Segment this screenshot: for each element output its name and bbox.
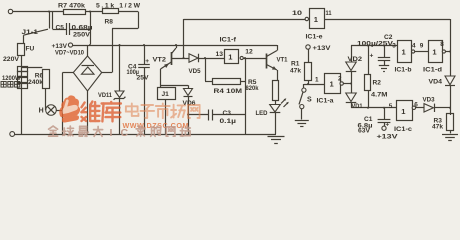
svg-text:5: 5 — [389, 103, 393, 110]
svg-text:820k: 820k — [246, 85, 259, 92]
svg-text:47k: 47k — [432, 123, 443, 130]
svg-text:IC1-f: IC1-f — [220, 37, 237, 44]
svg-text:6: 6 — [414, 101, 418, 108]
svg-text:+13V: +13V — [377, 133, 399, 140]
svg-text:VD2: VD2 — [348, 56, 363, 63]
svg-text:13: 13 — [216, 51, 224, 58]
svg-text:IC1-b: IC1-b — [395, 66, 412, 73]
svg-text:J1-1: J1-1 — [22, 29, 39, 36]
svg-text:8: 8 — [440, 41, 444, 48]
svg-text:FU: FU — [26, 46, 35, 53]
svg-text:0.1µ: 0.1µ — [220, 118, 237, 125]
svg-text:240k: 240k — [28, 79, 43, 86]
svg-text:12: 12 — [245, 49, 253, 56]
svg-text:220V: 220V — [3, 56, 20, 63]
svg-text:VD5: VD5 — [189, 68, 201, 75]
svg-text:+13V: +13V — [313, 45, 332, 52]
svg-text:VT1: VT1 — [277, 57, 288, 64]
svg-text:IC1-a: IC1-a — [317, 98, 334, 105]
svg-text:9: 9 — [420, 42, 424, 49]
svg-text:11: 11 — [326, 10, 332, 17]
svg-text:VD1: VD1 — [352, 103, 363, 110]
svg-text:3: 3 — [392, 42, 396, 49]
svg-text:IC1-e: IC1-e — [306, 33, 323, 40]
svg-text:J1: J1 — [162, 91, 170, 98]
svg-text:250V: 250V — [73, 31, 91, 38]
svg-text:25V: 25V — [137, 75, 150, 82]
svg-text:63V: 63V — [358, 128, 371, 135]
svg-text:VD3: VD3 — [423, 96, 435, 103]
svg-text:100µ/25V: 100µ/25V — [357, 40, 394, 47]
svg-text:I: I — [110, 127, 113, 139]
svg-text:C5: C5 — [56, 25, 65, 32]
svg-text:H: H — [39, 107, 44, 114]
svg-text:VD4: VD4 — [429, 78, 443, 85]
svg-text:R7 470k: R7 470k — [58, 2, 85, 9]
svg-text:5.1k 1/2W: 5.1k 1/2W — [96, 2, 141, 9]
svg-text:S: S — [307, 96, 312, 103]
svg-text:47k: 47k — [290, 67, 301, 74]
svg-text:R4 10M: R4 10M — [214, 88, 243, 95]
svg-text:VD7~VD10: VD7~VD10 — [55, 50, 84, 57]
svg-text:LED: LED — [256, 110, 268, 117]
svg-text:R2: R2 — [373, 80, 382, 87]
svg-text:4.7M: 4.7M — [371, 92, 388, 99]
svg-text:C3: C3 — [223, 110, 232, 117]
svg-text:IC1-d: IC1-d — [423, 66, 442, 73]
svg-text:C: C — [121, 127, 129, 139]
svg-text:IC1-c: IC1-c — [394, 126, 412, 133]
svg-text:1: 1 — [315, 77, 319, 84]
svg-text:VD11: VD11 — [98, 92, 112, 99]
svg-text:R8: R8 — [105, 18, 114, 25]
svg-text:+: + — [386, 122, 390, 129]
svg-text:4: 4 — [412, 42, 416, 49]
svg-text:VT2: VT2 — [153, 56, 167, 63]
svg-text:2: 2 — [338, 76, 342, 83]
svg-text:+: + — [145, 58, 149, 65]
svg-text:+: + — [370, 53, 374, 60]
svg-text:10: 10 — [292, 10, 303, 17]
